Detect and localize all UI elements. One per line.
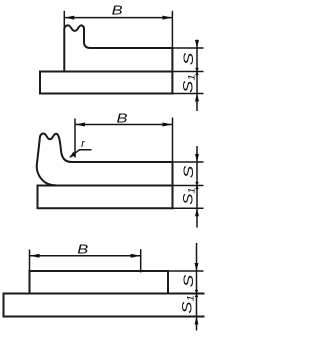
fig1 extension S bottom (172, 93, 203, 95)
fig2 extension S top (173, 161, 204, 163)
fig2 extension S bottom (173, 207, 204, 209)
fig2 dimension line в (75, 123, 173, 127)
fig3 dimension line в (30, 254, 141, 258)
svg-text:S: S (180, 275, 196, 288)
fig2 leader r (69, 150, 91, 158)
fig1 dimension line S S1 (195, 40, 199, 112)
fig1 dimension line в (64, 16, 172, 20)
fig2 base plate (38, 186, 173, 209)
svg-text:В: В (112, 3, 123, 18)
fig2 dimension line S S1 (195, 146, 199, 228)
fig3 extension line left (29, 250, 31, 272)
fig3 dimension line S S1 (195, 243, 199, 331)
svg-text:В: В (117, 110, 128, 125)
svg-text:В: В (77, 242, 88, 257)
fig1 extension line right (171, 11, 173, 48)
fig3 strip top extension (168, 270, 204, 272)
fig1 extension line left (63, 11, 65, 29)
fig2 extension line right (172, 118, 174, 163)
fig1 extension S top (172, 47, 203, 49)
fig3 base plate (4, 294, 204, 317)
fig1 bent sheet profile (64, 25, 172, 93)
fig1 base plate (40, 72, 172, 94)
fig1 extension S middle (172, 71, 203, 73)
fig2 extension line left (74, 119, 76, 158)
fig2 extension S middle (173, 185, 204, 187)
svg-text:S: S (180, 53, 196, 66)
fig3 extension line right (140, 249, 142, 272)
fig3 top strip (30, 271, 169, 294)
svg-text:S: S (180, 166, 196, 179)
fig2 curled sheet profile (37, 133, 173, 208)
